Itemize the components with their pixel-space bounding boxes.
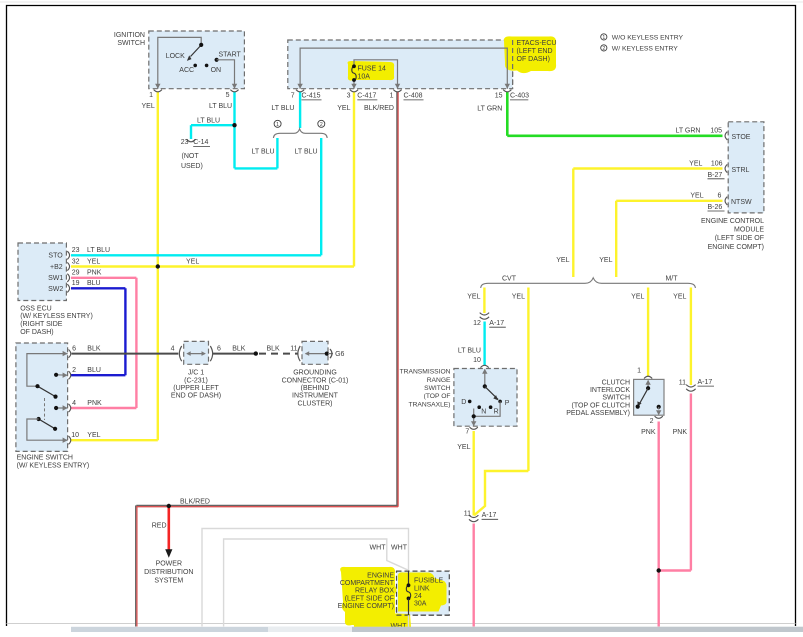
- svg-text:END OF DASH): END OF DASH): [171, 393, 221, 400]
- svg-text:FUSIBLE: FUSIBLE: [414, 578, 444, 585]
- svg-text:32: 32: [72, 258, 80, 265]
- svg-text:30A: 30A: [414, 601, 427, 608]
- svg-text:LT BLU: LT BLU: [252, 149, 275, 156]
- svg-text:LT BLU: LT BLU: [458, 347, 481, 354]
- svg-text:PNK: PNK: [673, 429, 688, 436]
- svg-text:J/C 1: J/C 1: [188, 370, 204, 377]
- svg-text:CLUTCH: CLUTCH: [602, 380, 630, 387]
- svg-text:11: 11: [679, 380, 686, 387]
- svg-text:W/O KEYLESS ENTRY: W/O KEYLESS ENTRY: [612, 35, 684, 42]
- svg-text:STRL: STRL: [732, 167, 750, 174]
- svg-text:ENGINE COMPT): ENGINE COMPT): [708, 244, 764, 251]
- svg-text:BLK: BLK: [267, 345, 281, 352]
- svg-text:LT BLU: LT BLU: [209, 103, 232, 110]
- svg-text:29: 29: [72, 270, 80, 277]
- svg-text:6: 6: [217, 345, 221, 352]
- svg-text:PNK: PNK: [87, 270, 102, 277]
- svg-text:N: N: [481, 409, 486, 416]
- svg-text:LT BLU: LT BLU: [87, 247, 110, 254]
- svg-text:PEDAL ASSEMBLY): PEDAL ASSEMBLY): [566, 410, 630, 417]
- svg-text:(C-231): (C-231): [184, 377, 208, 384]
- svg-text:6: 6: [717, 193, 721, 200]
- svg-text:YEL: YEL: [87, 258, 100, 265]
- svg-text:ENGINE COMPT): ENGINE COMPT): [338, 603, 394, 610]
- svg-text:YEL: YEL: [467, 294, 480, 301]
- svg-text:DISTRIBUTION: DISTRIBUTION: [144, 569, 193, 576]
- svg-text:OF DASH): OF DASH): [20, 329, 53, 336]
- svg-text:1: 1: [276, 122, 279, 128]
- svg-text:1: 1: [149, 92, 153, 99]
- svg-text:2: 2: [72, 367, 76, 374]
- svg-text:+B2: +B2: [50, 264, 63, 271]
- svg-text:RANGE: RANGE: [427, 377, 451, 384]
- svg-text:SYSTEM: SYSTEM: [154, 577, 183, 584]
- svg-text:LINK: LINK: [414, 585, 430, 592]
- svg-text:LT GRN: LT GRN: [675, 128, 700, 135]
- svg-text:BLU: BLU: [87, 280, 101, 287]
- svg-text:POWER: POWER: [156, 560, 182, 567]
- svg-text:G6: G6: [335, 351, 344, 358]
- svg-text:YEL: YEL: [186, 258, 199, 265]
- svg-text:19: 19: [72, 280, 80, 287]
- svg-text:7: 7: [465, 428, 469, 435]
- svg-text:STO: STO: [48, 253, 63, 260]
- svg-text:6: 6: [72, 345, 76, 352]
- svg-text:YEL: YEL: [631, 294, 644, 301]
- svg-text:YEL: YEL: [673, 294, 686, 301]
- svg-text:LT BLU: LT BLU: [271, 105, 294, 112]
- svg-text:C-417: C-417: [357, 92, 376, 99]
- svg-text:12: 12: [473, 320, 481, 327]
- svg-text:(LEFT SIDE OF: (LEFT SIDE OF: [345, 595, 394, 602]
- svg-text:YEL: YEL: [690, 193, 703, 200]
- svg-text:LT GRN: LT GRN: [477, 106, 502, 113]
- svg-text:BLK/RED: BLK/RED: [364, 105, 394, 112]
- svg-text:ENGINE: ENGINE: [367, 573, 394, 580]
- svg-text:(TOP OF: (TOP OF: [424, 393, 451, 400]
- svg-text:CONNECTOR (C-01): CONNECTOR (C-01): [282, 377, 349, 384]
- svg-text:WHT: WHT: [391, 545, 408, 552]
- svg-text:ACC: ACC: [179, 67, 194, 74]
- svg-text:4: 4: [72, 400, 76, 407]
- svg-text:GROUNDING: GROUNDING: [293, 370, 337, 377]
- svg-text:TRANSAXLE): TRANSAXLE): [409, 401, 451, 408]
- svg-text:23: 23: [72, 247, 80, 254]
- svg-text:C-415: C-415: [302, 92, 321, 99]
- svg-text:(W/ KEYLESS ENTRY): (W/ KEYLESS ENTRY): [20, 313, 93, 320]
- svg-text:B-27: B-27: [708, 172, 723, 179]
- svg-text:MODULE: MODULE: [734, 227, 764, 234]
- svg-text:(W/ KEYLESS ENTRY): (W/ KEYLESS ENTRY): [17, 462, 90, 469]
- svg-text:1: 1: [637, 368, 641, 375]
- svg-text:YEL: YEL: [599, 257, 612, 264]
- svg-text:BLK: BLK: [87, 345, 101, 352]
- svg-text:10A: 10A: [358, 74, 371, 81]
- svg-text:23: 23: [181, 139, 189, 146]
- svg-text:PNK: PNK: [641, 429, 656, 436]
- svg-text:BLU: BLU: [87, 367, 101, 374]
- svg-text:B-26: B-26: [708, 204, 723, 211]
- svg-text:START: START: [219, 52, 242, 59]
- svg-text:(BEHIND: (BEHIND: [301, 385, 330, 392]
- svg-text:(LEFT END: (LEFT END: [517, 48, 553, 55]
- svg-text:(RIGHT SIDE: (RIGHT SIDE: [20, 321, 63, 328]
- svg-text:RELAY BOX: RELAY BOX: [355, 588, 394, 595]
- svg-text:YEL: YEL: [689, 160, 702, 167]
- svg-text:ENGINE SWITCH: ENGINE SWITCH: [17, 454, 73, 461]
- svg-text:INSTRUMENT: INSTRUMENT: [292, 393, 339, 400]
- svg-text:10: 10: [473, 357, 481, 364]
- svg-text:11: 11: [290, 345, 297, 352]
- svg-text:W/ KEYLESS ENTRY: W/ KEYLESS ENTRY: [612, 46, 678, 53]
- svg-text:COMPARTMENT: COMPARTMENT: [340, 580, 395, 587]
- svg-text:LOCK: LOCK: [166, 53, 185, 60]
- svg-text:A-17: A-17: [698, 379, 713, 386]
- svg-text:LT BLU: LT BLU: [295, 149, 318, 156]
- svg-text:10: 10: [71, 432, 79, 439]
- svg-text:15: 15: [495, 92, 503, 99]
- svg-text:SWITCH: SWITCH: [117, 40, 145, 47]
- svg-text:OSS ECU: OSS ECU: [20, 305, 52, 312]
- svg-text:CLUSTER): CLUSTER): [297, 400, 332, 407]
- svg-text:STOE: STOE: [732, 134, 751, 141]
- svg-text:CVT: CVT: [502, 276, 517, 283]
- svg-text:TRANSMISSION: TRANSMISSION: [400, 368, 451, 375]
- svg-text:ENGINE CONTROL: ENGINE CONTROL: [701, 218, 764, 225]
- svg-text:7: 7: [291, 92, 295, 99]
- svg-text:SW2: SW2: [48, 286, 63, 293]
- svg-text:A-17: A-17: [482, 512, 497, 519]
- svg-text:FUSE 14: FUSE 14: [358, 66, 387, 73]
- svg-text:ON: ON: [211, 67, 222, 74]
- svg-text:(NOT: (NOT: [182, 153, 200, 160]
- svg-text:5: 5: [226, 92, 230, 99]
- svg-text:IGNITION: IGNITION: [114, 32, 145, 39]
- svg-text:2: 2: [320, 122, 323, 128]
- svg-text:(LEFT SIDE OF: (LEFT SIDE OF: [715, 235, 764, 242]
- svg-text:SWITCH: SWITCH: [602, 395, 630, 402]
- svg-text:PNK: PNK: [87, 400, 102, 407]
- svg-text:2: 2: [650, 418, 654, 425]
- svg-text:D: D: [461, 399, 466, 406]
- svg-text:C-408: C-408: [404, 92, 423, 99]
- svg-text:BLK: BLK: [232, 345, 246, 352]
- svg-text:YEL: YEL: [142, 103, 155, 110]
- svg-text:C-403: C-403: [510, 92, 529, 99]
- svg-text:INTERLOCK: INTERLOCK: [590, 387, 630, 394]
- svg-text:3: 3: [347, 92, 351, 99]
- svg-text:(TOP OF CLUTCH: (TOP OF CLUTCH: [572, 402, 630, 409]
- svg-text:11: 11: [464, 511, 471, 518]
- svg-text:1: 1: [602, 35, 605, 41]
- svg-text:R: R: [494, 409, 499, 416]
- svg-text:SWITCH: SWITCH: [424, 385, 451, 392]
- svg-text:YEL: YEL: [337, 105, 350, 112]
- svg-text:2: 2: [602, 46, 605, 52]
- svg-text:24: 24: [414, 593, 422, 600]
- svg-text:YEL: YEL: [512, 294, 525, 301]
- svg-text:RED: RED: [152, 522, 167, 529]
- svg-text:A-17: A-17: [489, 320, 504, 327]
- svg-text:YEL: YEL: [457, 444, 470, 451]
- svg-text:LT BLU: LT BLU: [197, 118, 220, 125]
- svg-text:OF DASH): OF DASH): [517, 56, 550, 63]
- svg-text:YEL: YEL: [556, 257, 569, 264]
- svg-text:105: 105: [710, 128, 722, 135]
- svg-text:C-14: C-14: [193, 139, 208, 146]
- svg-text:(UPPER LEFT: (UPPER LEFT: [173, 385, 219, 392]
- svg-text:4: 4: [171, 345, 175, 352]
- svg-text:WHT: WHT: [370, 545, 387, 552]
- svg-text:106: 106: [711, 160, 723, 167]
- svg-text:YEL: YEL: [87, 432, 100, 439]
- svg-text:M/T: M/T: [665, 276, 678, 283]
- svg-text:P: P: [505, 400, 510, 407]
- svg-text:NTSW: NTSW: [731, 199, 752, 206]
- svg-text:1: 1: [390, 92, 394, 99]
- svg-text:BLK/RED: BLK/RED: [180, 499, 210, 506]
- svg-text:SW1: SW1: [48, 275, 63, 282]
- svg-text:USED): USED): [181, 163, 203, 170]
- svg-text:ETACS-ECU: ETACS-ECU: [517, 40, 557, 47]
